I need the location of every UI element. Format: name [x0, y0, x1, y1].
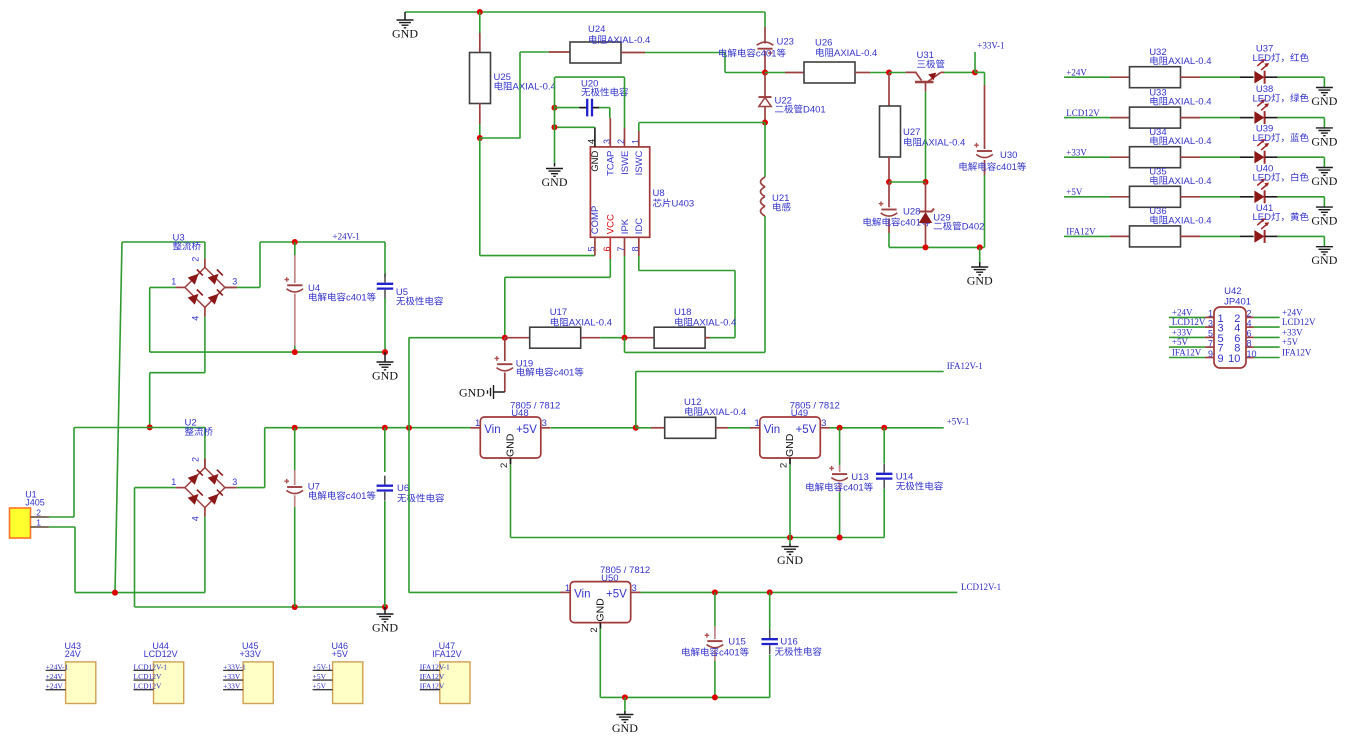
svg-text:LCD12V: LCD12V [1172, 317, 1206, 327]
svg-text:+33V: +33V [240, 649, 261, 659]
svg-text:LCD12V-1: LCD12V-1 [134, 662, 168, 671]
svg-text:U7: U7 [308, 482, 320, 493]
svg-text:+5V: +5V [313, 672, 327, 681]
svg-text:GND: GND [590, 150, 601, 171]
svg-text:3: 3 [232, 277, 237, 287]
svg-text:+5V: +5V [1172, 337, 1189, 347]
svg-text:2: 2 [190, 457, 200, 462]
svg-text:AXIAL-0.4: AXIAL-0.4 [922, 138, 965, 149]
svg-text:c401: c401 [346, 293, 367, 304]
svg-text:AXIAL-0.4: AXIAL-0.4 [1168, 97, 1211, 108]
svg-text:U26: U26 [815, 38, 832, 49]
svg-text:8: 8 [1247, 338, 1252, 348]
svg-text:GND: GND [595, 598, 607, 622]
svg-text:2: 2 [1247, 309, 1252, 319]
svg-text:GND: GND [505, 433, 517, 457]
svg-text:+33V-1: +33V-1 [223, 662, 246, 671]
svg-text:IFA12V-1: IFA12V-1 [947, 361, 983, 371]
svg-text:U36: U36 [1149, 206, 1166, 217]
svg-text:3: 3 [232, 477, 237, 487]
svg-text:AXIAL-0.4: AXIAL-0.4 [703, 407, 746, 418]
svg-text:U42: U42 [1224, 286, 1241, 297]
svg-text:+5V: +5V [1066, 187, 1083, 197]
svg-text:U49: U49 [791, 408, 808, 419]
svg-text:U15: U15 [728, 637, 745, 648]
svg-text:U31: U31 [917, 50, 934, 61]
svg-text:GND: GND [542, 175, 568, 189]
svg-text:AXIAL-0.4: AXIAL-0.4 [1168, 56, 1211, 67]
svg-text:+33V: +33V [1066, 148, 1087, 158]
svg-text:U28: U28 [903, 207, 920, 218]
svg-text:U22: U22 [775, 96, 792, 107]
svg-text:+5V-1: +5V-1 [947, 417, 970, 427]
svg-text:VCC: VCC [606, 214, 617, 234]
svg-text:GND: GND [1311, 134, 1337, 148]
svg-text:U33: U33 [1149, 87, 1166, 98]
svg-text:GND: GND [1311, 174, 1337, 188]
svg-text:JP401: JP401 [1224, 297, 1251, 308]
svg-text:2: 2 [499, 463, 510, 468]
svg-text:+5V-1: +5V-1 [313, 662, 332, 671]
svg-text:AXIAL-0.4: AXIAL-0.4 [834, 48, 877, 59]
svg-text:5: 5 [1208, 329, 1213, 339]
svg-text:+33V: +33V [223, 682, 241, 691]
svg-text:LED: LED [1253, 133, 1272, 144]
svg-text:2: 2 [36, 508, 41, 518]
svg-text:3: 3 [1208, 318, 1213, 328]
svg-text:IFA12V: IFA12V [1282, 348, 1312, 358]
svg-text:+24V: +24V [46, 672, 64, 681]
svg-text:U50: U50 [601, 573, 618, 584]
svg-text:IFA12V: IFA12V [1066, 227, 1096, 237]
svg-text:GND: GND [784, 433, 796, 457]
svg-text:LCD12V: LCD12V [134, 672, 163, 681]
svg-text:U403: U403 [672, 199, 695, 210]
svg-text:U27: U27 [903, 127, 920, 138]
svg-text:Vin: Vin [574, 589, 590, 601]
svg-text:9: 9 [1218, 353, 1224, 365]
svg-text:U17: U17 [550, 307, 567, 318]
svg-text:IFA12V: IFA12V [420, 672, 445, 681]
svg-text:1: 1 [1208, 309, 1213, 319]
svg-text:GND: GND [967, 274, 993, 288]
svg-text:+33V: +33V [1282, 327, 1303, 337]
svg-text:4: 4 [190, 316, 200, 321]
svg-text:U5: U5 [396, 287, 408, 298]
svg-text:U6: U6 [397, 483, 409, 494]
svg-text:Vin: Vin [484, 424, 500, 436]
svg-text:+33V: +33V [1172, 327, 1193, 337]
svg-text:Vin: Vin [764, 424, 780, 436]
svg-text:c401: c401 [900, 218, 921, 229]
svg-text:U4: U4 [308, 283, 320, 294]
svg-text:2: 2 [190, 257, 200, 262]
svg-text:2: 2 [779, 463, 790, 468]
svg-text:TCAP: TCAP [606, 151, 617, 176]
svg-text:c401: c401 [719, 648, 740, 659]
svg-text:AXIAL-0.4: AXIAL-0.4 [1168, 136, 1211, 147]
svg-text:24V: 24V [65, 649, 81, 659]
svg-text:U21: U21 [772, 193, 789, 204]
svg-text:U23: U23 [777, 37, 794, 48]
svg-text:GND: GND [372, 621, 398, 635]
svg-text:U35: U35 [1149, 167, 1166, 178]
svg-text:U2: U2 [185, 418, 197, 429]
svg-text:U32: U32 [1149, 47, 1166, 58]
svg-text:IFA12V-1: IFA12V-1 [420, 662, 450, 671]
svg-text:GND: GND [1311, 94, 1337, 108]
svg-text:D402: D402 [962, 222, 985, 233]
svg-text:c401: c401 [843, 483, 864, 494]
svg-text:U19: U19 [516, 359, 533, 370]
svg-text:U8: U8 [653, 188, 665, 199]
svg-text:U12: U12 [684, 397, 701, 408]
svg-text:c401: c401 [756, 49, 777, 60]
svg-text:ISWC: ISWC [634, 150, 645, 175]
svg-text:IFA12V: IFA12V [1172, 348, 1202, 358]
svg-text:+5V: +5V [796, 424, 817, 436]
svg-text:2: 2 [589, 627, 600, 632]
svg-text:AXIAL-0.4: AXIAL-0.4 [693, 318, 736, 329]
svg-text:c401: c401 [554, 368, 575, 379]
svg-text:AXIAL-0.4: AXIAL-0.4 [1168, 176, 1211, 187]
svg-text:c401: c401 [346, 491, 367, 502]
svg-text:+5V: +5V [1282, 337, 1299, 347]
svg-text:+33V-1: +33V-1 [977, 41, 1004, 51]
svg-text:GND: GND [777, 553, 803, 567]
svg-text:+5V: +5V [516, 424, 537, 436]
svg-text:AXIAL-0.4: AXIAL-0.4 [607, 35, 650, 46]
svg-text:10: 10 [1228, 353, 1240, 365]
svg-text:GND: GND [372, 369, 398, 383]
svg-text:+5V: +5V [332, 649, 348, 659]
svg-text:9: 9 [1208, 349, 1213, 359]
svg-text:IPK: IPK [620, 218, 631, 234]
svg-text:10: 10 [1247, 349, 1257, 359]
svg-text:LCD12V: LCD12V [1282, 317, 1316, 327]
svg-text:LCD12V: LCD12V [144, 649, 178, 659]
svg-text:U25: U25 [494, 72, 511, 83]
svg-text:AXIAL-0.4: AXIAL-0.4 [513, 82, 556, 93]
svg-text:LCD12V: LCD12V [1066, 108, 1100, 118]
svg-text:U48: U48 [511, 408, 528, 419]
svg-text:U30: U30 [1000, 150, 1017, 161]
svg-text:GND: GND [1311, 214, 1337, 228]
svg-text:1: 1 [171, 477, 176, 487]
svg-text:U18: U18 [674, 307, 691, 318]
svg-text:U14: U14 [896, 472, 913, 483]
svg-text:ISWE: ISWE [620, 151, 631, 175]
svg-text:+5V: +5V [606, 589, 627, 601]
svg-text:+24V: +24V [1282, 307, 1303, 317]
svg-text:1: 1 [36, 518, 41, 528]
svg-text:4: 4 [1247, 318, 1252, 328]
svg-text:+5V: +5V [313, 682, 327, 691]
svg-text:GND: GND [392, 27, 418, 41]
svg-text:U24: U24 [588, 24, 605, 35]
svg-text:GND: GND [612, 721, 638, 735]
svg-text:+24V: +24V [46, 682, 64, 691]
svg-text:+24V: +24V [1066, 68, 1087, 78]
svg-text:LCD12V-1: LCD12V-1 [961, 582, 1001, 592]
svg-text:LED: LED [1253, 212, 1272, 223]
svg-text:c401: c401 [996, 162, 1017, 173]
svg-text:+24V-1: +24V-1 [46, 662, 69, 671]
svg-text:IFA12V: IFA12V [432, 649, 462, 659]
svg-text:7: 7 [1208, 338, 1213, 348]
svg-text:LED: LED [1253, 93, 1272, 104]
svg-text:GND: GND [1311, 253, 1337, 267]
svg-text:LCD12V: LCD12V [134, 682, 163, 691]
svg-text:+24V-1: +24V-1 [333, 231, 360, 241]
svg-text:U29: U29 [933, 213, 950, 224]
svg-text:U20: U20 [581, 79, 598, 90]
svg-text:U34: U34 [1149, 127, 1166, 138]
svg-text:D401: D401 [803, 105, 826, 116]
svg-text:LED: LED [1253, 53, 1272, 64]
svg-text:+33V: +33V [223, 672, 241, 681]
svg-text:U16: U16 [780, 637, 797, 648]
svg-text:6: 6 [1247, 329, 1252, 339]
svg-text:J405: J405 [25, 498, 45, 508]
svg-text:+24V: +24V [1172, 307, 1193, 317]
svg-text:IFA12V: IFA12V [420, 682, 445, 691]
svg-text:1: 1 [171, 277, 176, 287]
svg-text:AXIAL-0.4: AXIAL-0.4 [569, 318, 612, 329]
svg-text:4: 4 [190, 516, 200, 521]
svg-text:COMP: COMP [590, 206, 601, 235]
svg-text:U13: U13 [851, 472, 868, 483]
svg-text:LED: LED [1253, 173, 1272, 184]
svg-text:IDC: IDC [634, 218, 645, 235]
svg-text:GND: GND [459, 386, 485, 400]
svg-text:AXIAL-0.4: AXIAL-0.4 [1168, 215, 1211, 226]
